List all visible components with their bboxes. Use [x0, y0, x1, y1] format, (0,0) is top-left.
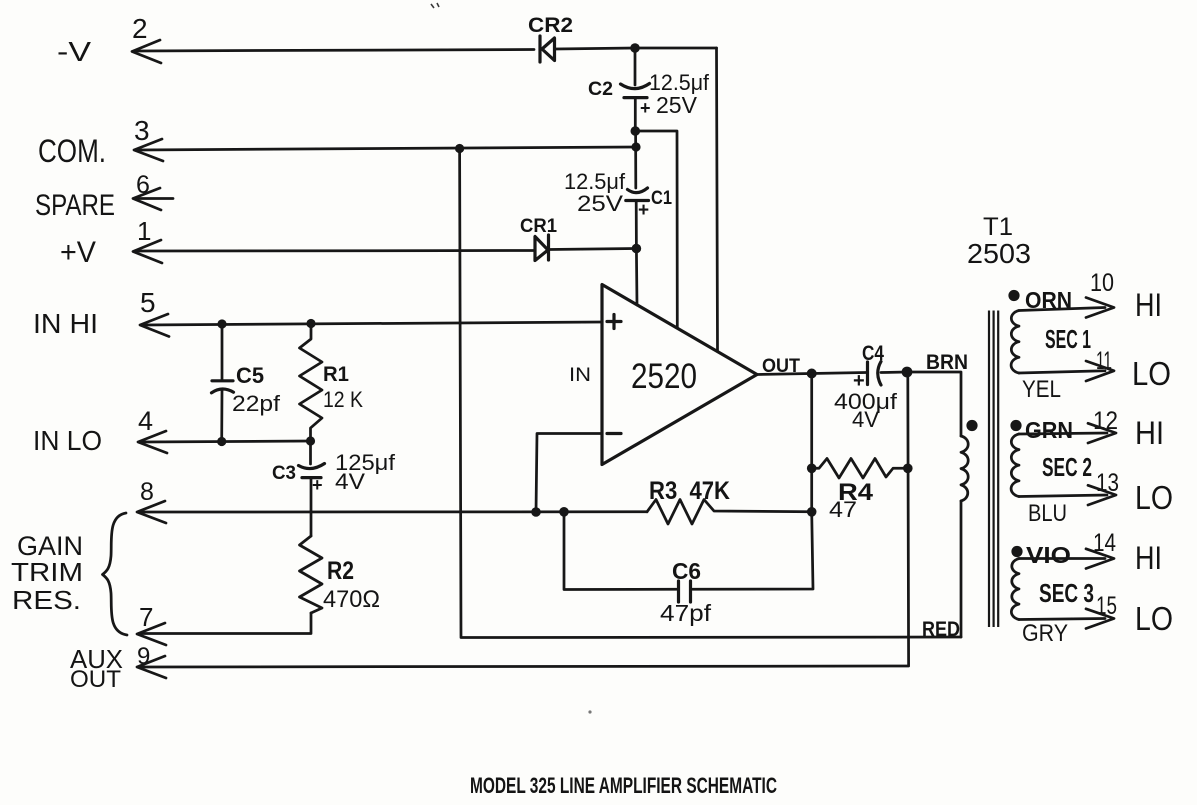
wire op-amp output [757, 374, 812, 375]
wire COM line [136, 147, 636, 150]
svg-text:IN HI: IN HI [33, 308, 98, 339]
capacitor C5 [212, 324, 234, 442]
svg-text:TRIM: TRIM [11, 557, 83, 587]
transformer secondary winding SEC 1 [1011, 311, 1019, 374]
svg-text:4: 4 [138, 406, 153, 436]
svg-text:8: 8 [140, 478, 154, 506]
wire BRN to primary [907, 372, 961, 436]
capacitor C4 [868, 362, 882, 386]
svg-text:T1: T1 [983, 213, 1013, 241]
capacitor C1 [626, 131, 649, 249]
junction C2 bottom / rail jog [631, 126, 641, 136]
svg-text:C5: C5 [236, 363, 264, 388]
svg-text:IN: IN [569, 365, 591, 386]
junction R4 right [903, 464, 913, 474]
resistor R4 [812, 459, 908, 479]
capacitor C3 [299, 441, 325, 536]
svg-text:HI: HI [1135, 415, 1164, 451]
svg-text:SEC 2: SEC 2 [1042, 452, 1092, 482]
SEC 1 phase dot [1008, 290, 1019, 301]
svg-text:LO: LO [1135, 600, 1173, 637]
SEC 3 phase dot [1011, 546, 1022, 557]
transformer T1 primary winding [961, 436, 968, 501]
svg-text:R3 47K: R3 47K [649, 477, 730, 505]
svg-text:R1: R1 [323, 363, 349, 386]
wire -V rail to CR2 [134, 50, 534, 52]
SEC3 LO wire and arrow [1019, 609, 1114, 629]
SEC2 HI wire and arrow [1019, 423, 1116, 443]
svg-text:SEC 3: SEC 3 [1039, 578, 1094, 608]
svg-text:1: 1 [137, 216, 151, 246]
wire output node down to R3 line [810, 468, 813, 512]
junction C1 bottom / +V op-amp pin [632, 244, 642, 254]
wire RED return to COM [460, 149, 961, 638]
svg-text:47pf: 47pf [660, 600, 712, 626]
svg-text:LO: LO [1132, 355, 1171, 392]
wire AUX OUT to output node [139, 372, 909, 667]
svg-text:25V: 25V [656, 92, 698, 118]
primary phase dot [966, 420, 977, 431]
svg-text:2: 2 [132, 13, 148, 44]
svg-text:22pf: 22pf [232, 391, 281, 416]
wire CR2 to junction [555, 48, 636, 49]
svg-text:VIO: VIO [1026, 542, 1071, 568]
gain trim brace [103, 513, 128, 635]
diode CR1 [535, 235, 549, 261]
svg-text:47: 47 [829, 497, 857, 522]
svg-text:CR1: CR1 [520, 216, 557, 237]
wire IN LO [140, 441, 311, 442]
wire CR1 to junction [549, 249, 637, 250]
pin 6 arrow [133, 188, 161, 210]
diode CR2 [540, 36, 555, 62]
svg-text:C3: C3 [272, 463, 296, 484]
svg-text:+: + [312, 475, 323, 495]
svg-text:2520: 2520 [631, 357, 697, 396]
svg-text:HI: HI [1135, 287, 1162, 323]
svg-text:470Ω: 470Ω [323, 586, 380, 613]
svg-text:CR2: CR2 [528, 14, 573, 37]
svg-text:R2: R2 [327, 557, 354, 585]
svg-text:MODEL 325 LINE AMPLIFIER SCHEM: MODEL 325 LINE AMPLIFIER SCHEMATIC [470, 773, 777, 798]
svg-text:+: + [640, 98, 651, 118]
resistor R3 [647, 500, 812, 525]
junction -V rail / C2 [630, 43, 640, 53]
resistor R1 [300, 324, 323, 442]
svg-text:-V: -V [57, 36, 91, 67]
wire R4 left leg [810, 374, 813, 469]
junction pin8 line / inverting input [531, 507, 541, 517]
svg-text:GRN: GRN [1025, 417, 1073, 443]
svg-text:C1: C1 [651, 188, 672, 209]
wire right rail down to op-amp V- pin [717, 48, 718, 352]
pin 2 arrow [132, 40, 161, 63]
svg-text:2503: 2503 [967, 238, 1031, 269]
svg-text:12 K: 12 K [323, 387, 363, 412]
svg-text:C2: C2 [588, 79, 613, 100]
junction COM / C1 top [631, 142, 640, 151]
junction IN LO / R1 / C3 [306, 436, 315, 445]
svg-text:4V: 4V [335, 469, 365, 494]
ink speck top centre [431, 3, 439, 8]
svg-text:+: + [638, 200, 649, 221]
svg-text:+V: +V [60, 236, 96, 269]
svg-text:GRY: GRY [1022, 620, 1068, 647]
wire R2 bottom to pin 7 [139, 613, 311, 634]
resistor R2 [300, 536, 323, 613]
svg-text:4V: 4V [852, 407, 879, 432]
svg-text:OUT: OUT [70, 666, 121, 693]
svg-text:COM.: COM. [38, 133, 106, 169]
wire primary to RED lead [960, 501, 963, 637]
capacitor C6 [679, 581, 691, 602]
svg-text:IN LO: IN LO [33, 425, 102, 456]
pin 3 arrow [134, 139, 163, 161]
wire spare stub [135, 197, 173, 200]
wire +V to CR1 [135, 249, 535, 252]
SEC1 LO wire and arrow [1019, 361, 1114, 381]
junction IN HI / R1 [306, 319, 315, 328]
pin 4 arrow [138, 431, 167, 453]
svg-text:HI: HI [1135, 540, 1162, 576]
wire output to C4 [812, 373, 866, 374]
wire IN HI to op-amp + input [142, 322, 602, 325]
wire -V rail to right corner [635, 47, 717, 50]
ink speck below C6 [588, 710, 591, 713]
SEC2 LO wire and arrow [1019, 485, 1116, 505]
junction COM / ground branch [455, 144, 464, 153]
wire inverting input to pin8 line [536, 434, 602, 513]
pin 1 arrow [133, 240, 162, 263]
junction R4 left [807, 464, 817, 474]
transformer secondary winding SEC 3 [1011, 559, 1019, 620]
wire down to op-amp V+ pin [635, 249, 638, 306]
capacitor C2 [621, 48, 650, 131]
pin 9 arrow [137, 656, 166, 678]
capacitor C6 loop right [693, 512, 814, 590]
wire jog to middle op-amp pin [635, 131, 677, 328]
svg-text:10: 10 [1090, 269, 1114, 297]
svg-text:YEL: YEL [1022, 376, 1061, 403]
svg-text:BRN: BRN [926, 351, 968, 374]
junction IN LO / C5 [217, 437, 226, 446]
junction output node [807, 369, 817, 379]
junction IN HI / C5 [217, 319, 226, 328]
svg-text:25V: 25V [577, 191, 623, 216]
svg-text:RES.: RES. [12, 585, 81, 615]
svg-text:5: 5 [140, 287, 156, 318]
capacitor C6 loop left [564, 512, 677, 590]
junction BRN node [902, 367, 913, 378]
transformer secondary winding SEC 2 [1011, 434, 1019, 497]
transformer core [989, 311, 998, 628]
pin 8 arrow [137, 501, 166, 523]
svg-text:SEC 1: SEC 1 [1045, 324, 1091, 354]
wire pin 8 feedback line [139, 510, 647, 513]
op-amp U1 2520 [602, 285, 757, 465]
pin 5 arrow [140, 314, 169, 337]
junction pin8 line / C6 [559, 507, 569, 517]
svg-text:BLU: BLU [1028, 500, 1067, 527]
svg-text:LO: LO [1135, 479, 1173, 516]
wire C4 to BRN junction [881, 371, 907, 374]
SEC 2 phase dot [1010, 420, 1021, 431]
pin 7 arrow [137, 623, 166, 645]
junction R3 right / C6 right [807, 507, 817, 517]
SEC1 HI wire and arrow [1019, 298, 1114, 318]
svg-text:SPARE: SPARE [35, 189, 115, 222]
SEC3 HI wire and arrow [1019, 549, 1114, 569]
svg-text:C6: C6 [672, 558, 701, 584]
svg-text:3: 3 [134, 115, 150, 146]
